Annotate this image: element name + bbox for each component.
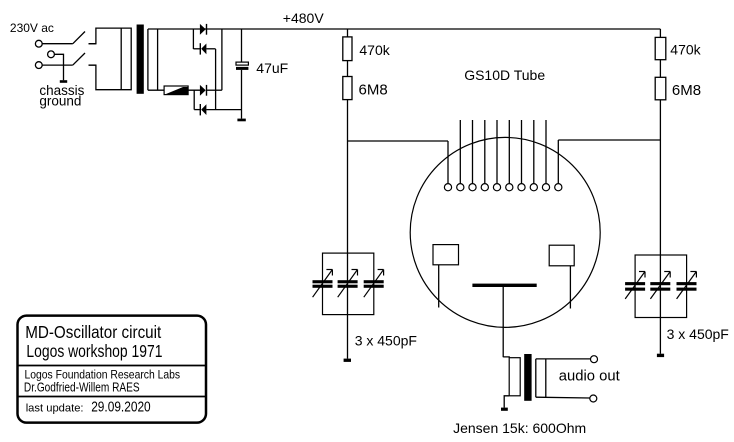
wire R4 to ground (right column) bbox=[659, 100, 661, 354]
svg-text:GS10D Tube: GS10D Tube bbox=[464, 67, 545, 83]
wire rail to D2 bbox=[192, 29, 194, 49]
svg-text:Logos Foundation Research Labs: Logos Foundation Research Labs bbox=[25, 369, 181, 382]
svg-text:Logos workshop 1971: Logos workshop 1971 bbox=[26, 342, 162, 361]
diode D2 bbox=[193, 48, 200, 50]
wire rail to R3 bbox=[659, 29, 661, 37]
wire D2 lead bbox=[206, 48, 215, 50]
wire grid box left stem bbox=[438, 265, 440, 308]
output transformer TR2 secondary bbox=[535, 359, 537, 397]
wire left column to tube pin 1 bbox=[348, 140, 449, 142]
svg-text:last update:: last update: bbox=[26, 402, 84, 414]
wire TR2 primary to ground bbox=[504, 396, 509, 408]
varcap CL3 bbox=[364, 270, 384, 298]
resistor R1 470k bbox=[343, 37, 352, 61]
tube pin 1 bbox=[447, 141, 449, 184]
wire grid box right stem bbox=[569, 266, 571, 309]
output transformer TR2 core bbox=[524, 354, 531, 401]
audio out terminal bottom bbox=[590, 395, 597, 402]
terminal T2 bbox=[35, 62, 42, 69]
wire R3 to R4 bbox=[659, 60, 661, 78]
tube pin 6 bbox=[508, 120, 510, 184]
resistor R3 470k bbox=[655, 37, 666, 59]
ground (left varcap) bbox=[344, 359, 351, 362]
tube pin 7 bbox=[521, 120, 523, 184]
svg-text:3 x 450pF: 3 x 450pF bbox=[667, 326, 729, 342]
terminal T1 bbox=[35, 40, 42, 47]
svg-text:ground: ground bbox=[39, 94, 81, 109]
audio out terminal top bbox=[591, 356, 598, 363]
transformer TR1 primary bbox=[89, 28, 132, 90]
wire +480V rail bbox=[148, 28, 661, 30]
tube V1 envelope bbox=[410, 137, 600, 327]
tube grid box left bbox=[433, 245, 459, 265]
tube pin 9 bbox=[545, 120, 547, 184]
chassis ground symbol bbox=[60, 80, 67, 83]
wire cathode jog bbox=[503, 356, 509, 359]
title block divider 1 bbox=[18, 365, 207, 367]
wire switch S1 to transformer bbox=[89, 43, 96, 45]
svg-text:3 x 450pF: 3 x 450pF bbox=[355, 332, 417, 348]
output transformer TR2 primary bbox=[509, 358, 520, 396]
diode D1 bbox=[200, 24, 206, 35]
wire C1 to ground bbox=[241, 70, 243, 119]
wire cathode to output transformer bbox=[502, 287, 504, 357]
title block divider 2 bbox=[18, 396, 207, 398]
diode D4 bbox=[194, 109, 200, 111]
svg-text:230V ac: 230V ac bbox=[10, 21, 54, 35]
tube pin 2 bbox=[459, 120, 461, 184]
tube cathode bar bbox=[472, 284, 536, 287]
ground (TR2) bbox=[501, 408, 508, 411]
tube pin 8 bbox=[533, 120, 535, 184]
wire D3 cathode row bbox=[207, 89, 222, 91]
capacitor C1 47uF bbox=[236, 62, 248, 65]
wire secondary top to audio out bbox=[536, 358, 591, 360]
tube grid box right bbox=[549, 245, 574, 266]
varcap CL1 bbox=[313, 270, 333, 298]
wire T2 to switch bbox=[42, 64, 72, 66]
wire rail to C1 bbox=[241, 29, 243, 62]
transformer TR1 core bbox=[137, 25, 144, 94]
switch S2 arm bbox=[73, 53, 85, 65]
svg-text:MD-Oscillator circuit: MD-Oscillator circuit bbox=[25, 323, 161, 342]
variable capacitor box right bbox=[635, 255, 687, 318]
svg-text:29.09.2020: 29.09.2020 bbox=[91, 398, 150, 414]
wire T3 to ground bbox=[55, 54, 64, 80]
transformer TR1 secondary bbox=[147, 29, 149, 90]
wire switch S2 to transformer bbox=[89, 64, 96, 66]
svg-text:470k: 470k bbox=[670, 41, 701, 57]
svg-text:Dr.Godfried-Willem RAES: Dr.Godfried-Willem RAES bbox=[24, 381, 140, 394]
varcap CR1 bbox=[625, 272, 645, 299]
wire secondary bottom row bbox=[148, 89, 200, 91]
svg-text:+480V: +480V bbox=[283, 10, 325, 26]
wire R1 to R2 bbox=[347, 61, 349, 77]
terminal T3 bbox=[48, 51, 55, 58]
diode D3 bbox=[200, 85, 206, 96]
wire T1 to switch bbox=[42, 43, 72, 45]
thermistor RT1 bbox=[164, 86, 188, 95]
svg-text:6M8: 6M8 bbox=[359, 81, 388, 98]
varcap CR2 bbox=[650, 272, 670, 299]
varcap CL2 bbox=[338, 270, 358, 298]
tube pin 4 bbox=[484, 120, 486, 184]
wire R2 to ground (left column) bbox=[347, 100, 349, 359]
ground (C1) bbox=[237, 119, 245, 122]
wire D2 to bottom node bbox=[215, 49, 217, 110]
wire D3 to rail bbox=[221, 29, 223, 90]
wire secondary bottom to audio out bbox=[536, 396, 590, 399]
wire D4 to ground node bbox=[206, 109, 241, 111]
resistor R2 6M8 bbox=[343, 77, 352, 100]
svg-text:audio out: audio out bbox=[559, 368, 620, 384]
tube pin 5 bbox=[496, 120, 498, 184]
svg-text:47uF: 47uF bbox=[256, 60, 288, 76]
wire tube pin 10 to right column bbox=[558, 139, 660, 141]
tube pin 3 bbox=[472, 120, 474, 184]
svg-text:470k: 470k bbox=[359, 42, 390, 58]
switch S1 arm bbox=[73, 32, 85, 44]
title block frame bbox=[18, 316, 207, 423]
ground (right varcap) bbox=[657, 354, 664, 357]
wire rail to R1 bbox=[347, 29, 349, 37]
varcap CR3 bbox=[677, 272, 697, 299]
variable capacitor box left bbox=[323, 253, 374, 315]
svg-text:Jensen 15k: 600Ohm: Jensen 15k: 600Ohm bbox=[453, 420, 586, 436]
resistor R4 6M8 bbox=[655, 77, 666, 100]
wire D3 anode to D4 bbox=[193, 90, 195, 109]
svg-text:6M8: 6M8 bbox=[672, 82, 701, 99]
tube pin 10 bbox=[557, 140, 559, 184]
